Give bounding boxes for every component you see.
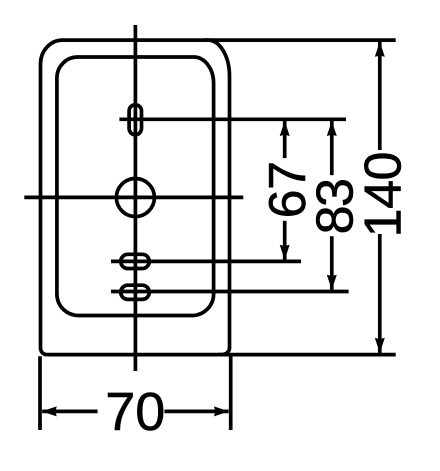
arrowhead 67 up: [280, 121, 290, 136]
inner body outline: [57, 57, 214, 316]
arrowhead 70 right: [214, 406, 229, 416]
arrowhead 83 up: [327, 121, 337, 136]
dimension 70 right extension line: [229, 356, 233, 430]
dimension 70 left extension line: [38, 356, 42, 430]
upper bottom slot centerline / extension line: [111, 260, 301, 264]
arrowhead 70 left: [42, 406, 57, 416]
horizontal centerline of circle: [24, 196, 243, 200]
lower bottom slot centerline / extension line: [111, 290, 349, 294]
outer body outline: [41, 40, 230, 355]
circle hole: [116, 179, 154, 217]
arrowhead 140 down: [375, 338, 385, 353]
top slot centerline / extension line: [119, 117, 346, 121]
svg-text:70: 70: [105, 382, 165, 442]
dimension 140 top extension line: [205, 38, 396, 42]
top slot hole: [129, 105, 141, 135]
dimension 83 line lower segment: [330, 236, 334, 290]
dimension 140 line upper segment: [378, 42, 382, 150]
lower bottom slot hole: [121, 285, 150, 299]
arrowhead 83 down: [327, 275, 337, 290]
upper bottom slot hole: [121, 254, 150, 268]
dimension 140 line lower segment: [378, 234, 382, 353]
dimension 140 bottom extension line: [218, 353, 396, 357]
svg-text:140: 140: [354, 152, 412, 237]
vertical centerline: [134, 25, 138, 371]
arrowhead 140 up: [375, 42, 385, 57]
arrowhead 67 down: [280, 245, 290, 260]
dimension 83 line upper segment: [330, 121, 334, 175]
dimension 70 line right segment: [165, 410, 229, 414]
dimension 67 line upper segment: [283, 121, 287, 158]
dimension 67 line lower segment: [283, 221, 287, 260]
dimension 70 line left segment: [42, 410, 97, 414]
